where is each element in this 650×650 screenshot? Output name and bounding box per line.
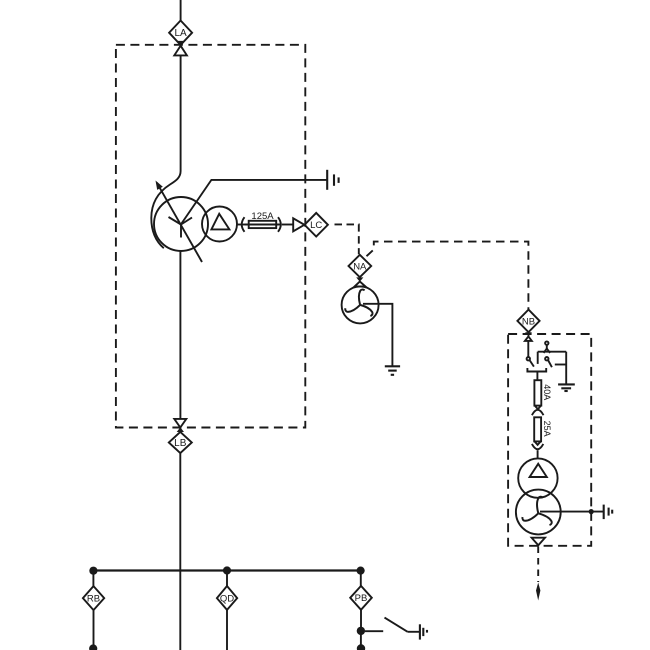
svg-text:LA: LA bbox=[174, 28, 187, 39]
svg-text:25A: 25A bbox=[542, 421, 552, 437]
svg-text:RB: RB bbox=[87, 593, 100, 604]
svg-text:NB: NB bbox=[522, 316, 535, 327]
svg-text:40A: 40A bbox=[542, 384, 552, 400]
svg-text:125A: 125A bbox=[251, 211, 274, 222]
svg-text:QD: QD bbox=[220, 593, 234, 604]
svg-text:LB: LB bbox=[174, 438, 187, 449]
svg-text:NA: NA bbox=[353, 262, 367, 273]
svg-text:PB: PB bbox=[355, 593, 368, 604]
svg-text:LC: LC bbox=[310, 220, 322, 231]
